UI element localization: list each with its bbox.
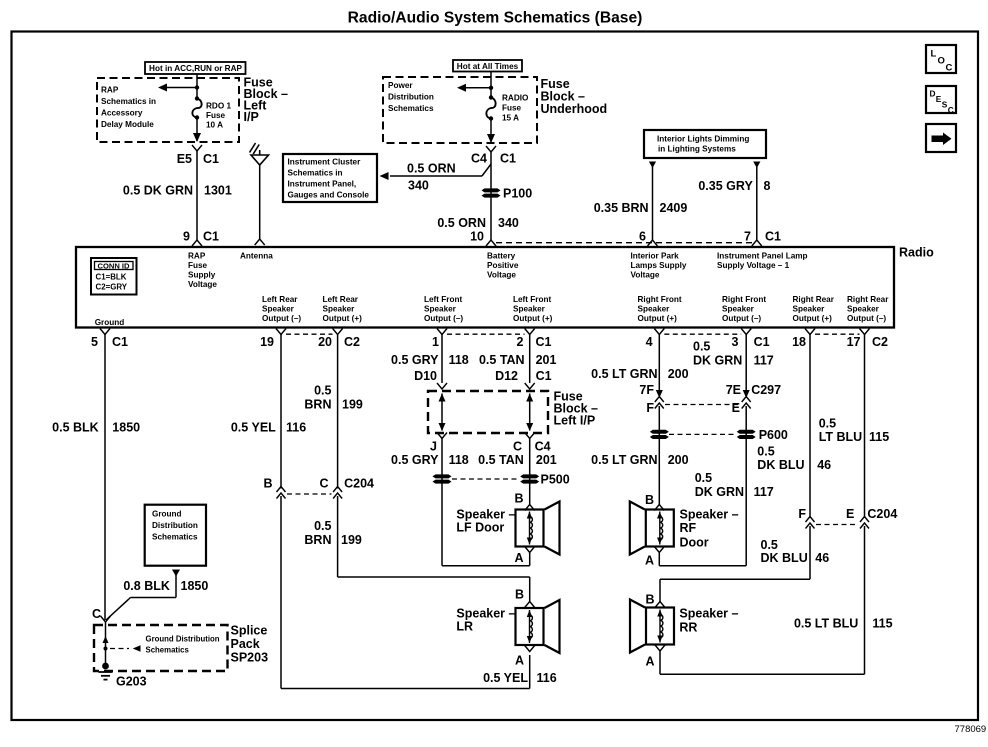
svg-text:C2: C2 [872, 335, 888, 349]
svg-text:Speaker –: Speaker – [680, 508, 739, 522]
svg-text:Output (+): Output (+) [638, 314, 678, 323]
svg-text:5: 5 [91, 335, 98, 349]
svg-text:Schematics: Schematics [152, 533, 198, 542]
svg-text:0.5: 0.5 [761, 538, 778, 552]
svg-text:Output (+): Output (+) [323, 314, 363, 323]
svg-text:Interior Park: Interior Park [631, 252, 680, 261]
svg-text:Output (–): Output (–) [424, 314, 463, 323]
svg-text:0.5 LT GRN: 0.5 LT GRN [591, 367, 657, 381]
svg-text:C: C [948, 105, 954, 115]
svg-text:9: 9 [183, 230, 190, 244]
svg-text:RAP: RAP [188, 252, 206, 261]
svg-text:SP203: SP203 [231, 651, 269, 665]
svg-text:Left Rear: Left Rear [323, 295, 359, 304]
svg-text:0.35 GRY: 0.35 GRY [698, 179, 753, 193]
svg-text:RR: RR [679, 621, 697, 635]
svg-text:C4: C4 [471, 152, 487, 166]
svg-text:DK BLU: DK BLU [757, 458, 804, 472]
svg-text:Positive: Positive [487, 261, 519, 270]
svg-text:117: 117 [754, 485, 774, 499]
svg-text:Hot in ACC,RUN or RAP: Hot in ACC,RUN or RAP [149, 64, 242, 73]
svg-text:Speaker: Speaker [323, 305, 356, 314]
svg-text:RADIO: RADIO [502, 94, 529, 103]
svg-text:0.5 TAN: 0.5 TAN [478, 453, 524, 467]
svg-text:in Lighting Systems: in Lighting Systems [658, 145, 736, 154]
svg-text:O: O [938, 56, 945, 67]
svg-text:Pack: Pack [231, 637, 260, 651]
svg-text:LR: LR [456, 620, 473, 634]
svg-text:Delay Module: Delay Module [101, 120, 154, 129]
svg-text:7E: 7E [726, 383, 741, 397]
svg-text:8: 8 [764, 179, 771, 193]
svg-text:0.5 DK GRN: 0.5 DK GRN [123, 184, 193, 198]
svg-text:Instrument Cluster: Instrument Cluster [288, 158, 362, 167]
svg-text:46: 46 [817, 458, 831, 472]
svg-text:C: C [319, 477, 328, 491]
svg-text:Fuse: Fuse [502, 104, 522, 113]
svg-text:0.5 YEL: 0.5 YEL [231, 421, 276, 435]
svg-text:Door: Door [680, 536, 709, 550]
svg-text:Speaker –: Speaker – [456, 508, 515, 522]
svg-text:Underhood: Underhood [541, 102, 608, 116]
svg-text:118: 118 [449, 353, 469, 367]
svg-text:7: 7 [744, 230, 751, 244]
svg-text:C1: C1 [203, 152, 219, 166]
svg-text:778069: 778069 [955, 724, 987, 735]
svg-text:18: 18 [792, 335, 806, 349]
svg-text:199: 199 [341, 533, 362, 547]
svg-text:116: 116 [286, 421, 306, 435]
svg-text:Right Rear: Right Rear [793, 295, 835, 304]
svg-text:CONN ID: CONN ID [97, 261, 130, 270]
svg-text:0.5 ORN: 0.5 ORN [407, 162, 456, 176]
svg-text:0.5 GRY: 0.5 GRY [391, 453, 439, 467]
svg-text:P600: P600 [759, 428, 788, 442]
svg-text:C204: C204 [344, 477, 374, 491]
svg-text:J: J [430, 440, 437, 454]
svg-text:Distribution: Distribution [152, 521, 198, 530]
svg-text:E: E [846, 507, 854, 521]
svg-text:Left Rear: Left Rear [262, 295, 298, 304]
svg-text:P500: P500 [541, 473, 570, 487]
svg-text:340: 340 [498, 216, 519, 230]
svg-text:Fuse: Fuse [188, 261, 208, 270]
svg-text:199: 199 [342, 398, 363, 412]
svg-text:C: C [92, 607, 101, 621]
svg-text:1: 1 [432, 335, 439, 349]
svg-text:Right Rear: Right Rear [847, 295, 889, 304]
svg-text:0.5 BLK: 0.5 BLK [52, 421, 99, 435]
svg-text:Supply: Supply [188, 271, 216, 280]
svg-text:Left I/P: Left I/P [554, 414, 596, 428]
svg-text:0.5: 0.5 [314, 519, 331, 533]
svg-text:B: B [645, 493, 654, 507]
svg-text:19: 19 [260, 335, 274, 349]
svg-text:I/P: I/P [244, 110, 259, 124]
svg-text:Left Front: Left Front [513, 295, 551, 304]
svg-text:1301: 1301 [204, 184, 232, 198]
svg-text:6: 6 [639, 230, 646, 244]
svg-text:Ground Distribution: Ground Distribution [146, 635, 220, 644]
svg-text:0.5 GRY: 0.5 GRY [391, 353, 439, 367]
svg-text:3: 3 [732, 335, 739, 349]
svg-text:17: 17 [847, 335, 861, 349]
svg-text:C1: C1 [203, 230, 219, 244]
svg-text:LF Door: LF Door [456, 521, 504, 535]
svg-text:C: C [513, 440, 522, 454]
svg-text:Schematics: Schematics [388, 104, 434, 113]
svg-text:10 A: 10 A [206, 121, 223, 130]
svg-text:B: B [514, 492, 523, 506]
svg-text:118: 118 [449, 453, 469, 467]
svg-text:10: 10 [470, 230, 484, 244]
svg-text:Gauges and Console: Gauges and Console [288, 191, 370, 200]
svg-text:Radio: Radio [899, 246, 934, 260]
svg-text:Voltage: Voltage [188, 280, 217, 289]
svg-text:Output (–): Output (–) [722, 314, 761, 323]
svg-text:P100: P100 [503, 187, 532, 201]
svg-text:0.5 TAN: 0.5 TAN [479, 353, 525, 367]
svg-text:2409: 2409 [660, 201, 688, 215]
svg-text:C1: C1 [536, 369, 552, 383]
svg-text:116: 116 [537, 671, 557, 685]
svg-text:4: 4 [646, 335, 653, 349]
svg-text:C1: C1 [112, 335, 128, 349]
svg-text:Antenna: Antenna [240, 252, 273, 261]
svg-text:7F: 7F [639, 383, 654, 397]
svg-text:A: A [515, 654, 524, 668]
svg-text:L: L [931, 49, 937, 60]
svg-text:0.5: 0.5 [819, 417, 836, 431]
svg-text:Lamps Supply: Lamps Supply [631, 261, 687, 270]
svg-text:0.35 BRN: 0.35 BRN [594, 201, 649, 215]
svg-text:C297: C297 [751, 383, 781, 397]
svg-text:Instrument Panel,: Instrument Panel, [288, 180, 357, 189]
svg-text:RDO 1: RDO 1 [206, 102, 231, 111]
svg-text:Power: Power [388, 81, 413, 90]
svg-text:0.5 YEL: 0.5 YEL [483, 671, 528, 685]
svg-text:B: B [645, 593, 654, 607]
svg-text:C1: C1 [500, 152, 516, 166]
svg-text:C4: C4 [535, 440, 551, 454]
svg-text:46: 46 [815, 551, 829, 565]
svg-text:C: C [946, 63, 953, 74]
svg-text:Ground: Ground [95, 318, 125, 327]
svg-text:0.8 BLK: 0.8 BLK [123, 579, 170, 593]
svg-text:Output (+): Output (+) [513, 314, 553, 323]
svg-text:F: F [646, 401, 654, 415]
svg-text:D12: D12 [495, 369, 518, 383]
svg-text:C1: C1 [765, 230, 781, 244]
svg-text:0.5 ORN: 0.5 ORN [437, 216, 486, 230]
svg-text:C1: C1 [536, 335, 552, 349]
svg-text:15 A: 15 A [502, 114, 519, 123]
svg-text:F: F [798, 507, 806, 521]
svg-text:RF: RF [680, 521, 697, 535]
svg-text:200: 200 [668, 367, 689, 381]
svg-text:Hot at All Times: Hot at All Times [457, 62, 519, 71]
svg-text:Speaker: Speaker [424, 305, 457, 314]
svg-text:340: 340 [408, 179, 429, 193]
svg-text:Distribution: Distribution [388, 93, 434, 102]
svg-text:Voltage: Voltage [487, 271, 516, 280]
svg-text:0.5 LT GRN: 0.5 LT GRN [591, 453, 657, 467]
svg-text:Voltage: Voltage [631, 271, 660, 280]
svg-text:201: 201 [536, 353, 557, 367]
svg-text:D10: D10 [414, 369, 437, 383]
svg-text:Output (–): Output (–) [847, 314, 886, 323]
svg-text:201: 201 [536, 453, 557, 467]
svg-text:B: B [515, 588, 524, 602]
svg-text:Battery: Battery [487, 252, 516, 261]
svg-text:LT BLU: LT BLU [819, 430, 863, 444]
svg-text:E5: E5 [177, 152, 192, 166]
svg-text:C1=BLK: C1=BLK [96, 273, 127, 282]
svg-text:D: D [930, 89, 936, 99]
svg-text:117: 117 [754, 354, 774, 368]
svg-text:Speaker: Speaker [847, 305, 880, 314]
svg-text:Speaker: Speaker [638, 305, 671, 314]
svg-text:DK GRN: DK GRN [695, 485, 744, 499]
svg-text:E: E [732, 401, 740, 415]
svg-text:0.5: 0.5 [757, 445, 774, 459]
svg-text:BRN: BRN [304, 533, 331, 547]
svg-text:Fuse: Fuse [206, 111, 226, 120]
svg-text:Instrument Panel Lamp: Instrument Panel Lamp [717, 252, 808, 261]
svg-text:Speaker: Speaker [793, 305, 826, 314]
svg-text:C1: C1 [754, 335, 770, 349]
svg-text:20: 20 [318, 335, 332, 349]
svg-text:Speaker: Speaker [262, 305, 295, 314]
svg-text:Accessory: Accessory [101, 109, 143, 118]
svg-text:2: 2 [517, 335, 524, 349]
svg-text:Speaker: Speaker [513, 305, 546, 314]
svg-text:Ground: Ground [152, 510, 182, 519]
svg-text:Speaker –: Speaker – [456, 607, 515, 621]
svg-text:DK BLU: DK BLU [761, 551, 808, 565]
svg-text:115: 115 [869, 430, 889, 444]
svg-text:A: A [645, 655, 654, 669]
svg-text:0.5: 0.5 [695, 471, 712, 485]
svg-text:Output (–): Output (–) [262, 314, 301, 323]
svg-text:Schematics in: Schematics in [288, 169, 343, 178]
svg-text:A: A [645, 554, 654, 568]
svg-text:RAP: RAP [101, 86, 119, 95]
svg-text:Speaker –: Speaker – [679, 607, 738, 621]
svg-text:C204: C204 [867, 507, 897, 521]
svg-text:DK GRN: DK GRN [693, 354, 742, 368]
svg-text:Right Front: Right Front [722, 295, 766, 304]
svg-text:Splice: Splice [231, 624, 268, 638]
svg-text:200: 200 [668, 453, 689, 467]
svg-text:Output (+): Output (+) [793, 314, 833, 323]
svg-text:G203: G203 [116, 675, 147, 689]
svg-text:115: 115 [872, 617, 892, 631]
svg-text:1850: 1850 [112, 421, 140, 435]
svg-text:Schematics: Schematics [146, 646, 190, 655]
svg-text:0.5 LT BLU: 0.5 LT BLU [794, 617, 858, 631]
svg-text:C2=GRY: C2=GRY [96, 283, 128, 292]
svg-text:Interior Lights Dimming: Interior Lights Dimming [657, 135, 749, 144]
svg-text:Left Front: Left Front [424, 295, 462, 304]
svg-text:Radio/Audio System Schematics: Radio/Audio System Schematics (Base) [348, 10, 643, 27]
svg-text:1850: 1850 [181, 579, 209, 593]
svg-text:B: B [263, 477, 272, 491]
svg-text:A: A [514, 551, 523, 565]
svg-text:Right Front: Right Front [638, 295, 682, 304]
svg-text:0.5: 0.5 [693, 340, 710, 354]
svg-text:BRN: BRN [304, 398, 331, 412]
svg-text:Speaker: Speaker [722, 305, 755, 314]
svg-text:0.5: 0.5 [314, 384, 331, 398]
svg-text:Schematics in: Schematics in [101, 97, 156, 106]
svg-text:C2: C2 [344, 335, 360, 349]
svg-text:Supply Voltage – 1: Supply Voltage – 1 [717, 261, 790, 270]
